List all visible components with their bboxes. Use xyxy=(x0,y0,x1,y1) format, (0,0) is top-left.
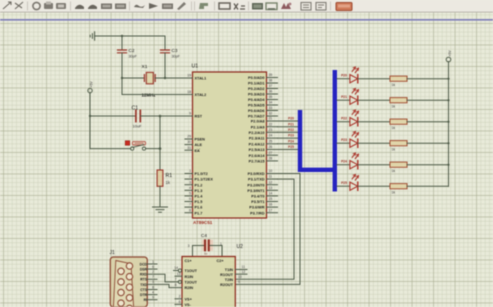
node A xyxy=(121,35,123,37)
wire P3.0 to U2 R2OUT xyxy=(235,174,300,285)
resistor R3 xyxy=(390,98,449,109)
U1 pins P3.0-P3.7 (10-17) xyxy=(247,169,277,215)
svg-text:P2.0/A8: P2.0/A8 xyxy=(251,120,265,124)
svg-text:DSR: DSR xyxy=(140,268,148,272)
U1 pins P2.0-P2.7 (21-28) xyxy=(249,117,278,164)
svg-text:CTS: CTS xyxy=(140,288,148,292)
power +5V terminal xyxy=(88,81,94,93)
node D xyxy=(89,115,91,117)
svg-text:DCD: DCD xyxy=(140,262,148,266)
svg-text:10: 10 xyxy=(238,275,242,279)
svg-text:35: 35 xyxy=(269,95,273,99)
wire xyxy=(146,148,160,150)
svg-text:18: 18 xyxy=(187,90,191,94)
svg-text:31: 31 xyxy=(187,146,191,150)
U1 pin ALE (30) xyxy=(185,140,203,147)
svg-text:P3.4/T0: P3.4/T0 xyxy=(251,195,264,199)
svg-text:9: 9 xyxy=(152,296,154,300)
svg-text:7: 7 xyxy=(175,278,177,282)
J1 pin stubs and numbers xyxy=(147,260,157,300)
LED D2 with net label P21 xyxy=(337,89,390,105)
svg-text:1: 1 xyxy=(152,260,154,264)
svg-text:2: 2 xyxy=(179,294,181,298)
svg-text:P2.2/A10: P2.2/A10 xyxy=(249,131,265,135)
svg-text:P1.4: P1.4 xyxy=(195,195,204,199)
svg-text:P2.3/A11: P2.3/A11 xyxy=(249,137,265,141)
svg-text:XTAL1: XTAL1 xyxy=(195,77,207,81)
wire P2.0 to bus xyxy=(278,117,298,121)
svg-text:1k: 1k xyxy=(392,148,396,152)
svg-text:R1OUT: R1OUT xyxy=(220,273,234,277)
svg-text:C2: C2 xyxy=(129,48,135,53)
wire xyxy=(90,115,136,117)
svg-text:J1: J1 xyxy=(110,250,116,256)
svg-text:13: 13 xyxy=(177,272,181,276)
svg-text:2: 2 xyxy=(189,175,191,179)
svg-text:29: 29 xyxy=(187,135,191,139)
svg-text:P0.0/AD0: P0.0/AD0 xyxy=(248,76,264,80)
svg-text:P24: P24 xyxy=(341,160,347,164)
svg-text:P3.6/WR: P3.6/WR xyxy=(249,206,264,210)
svg-text:34: 34 xyxy=(269,101,273,105)
svg-text:RST: RST xyxy=(195,115,203,119)
U1 pins P1.0-P1.7 (1-8) xyxy=(185,169,213,215)
svg-text:8: 8 xyxy=(175,283,177,287)
svg-text:12: 12 xyxy=(242,270,246,274)
svg-text:P3.2/INT0: P3.2/INT0 xyxy=(247,183,264,187)
svg-text:T2OUT: T2OUT xyxy=(185,281,198,285)
ground xyxy=(153,207,168,212)
svg-text:9: 9 xyxy=(189,112,191,116)
svg-text:P0.3/AD3: P0.3/AD3 xyxy=(248,93,264,97)
LED D4 with net label P23 xyxy=(337,132,390,148)
svg-text:+5V: +5V xyxy=(448,50,452,57)
svg-text:P1.7: P1.7 xyxy=(195,211,203,215)
svg-text:U1: U1 xyxy=(192,64,199,70)
node rail junctions xyxy=(447,78,449,166)
svg-text:P1.6: P1.6 xyxy=(195,206,203,210)
U1 pins P0.0-P0.7 (39-32) xyxy=(248,73,277,119)
wire J1 TXD to U2 R2IN xyxy=(147,284,182,287)
wire xyxy=(89,93,91,149)
svg-text:1k: 1k xyxy=(392,191,396,195)
U2 pin VS- (6) xyxy=(175,300,192,307)
resistor R6 xyxy=(390,162,449,173)
capacitor C3 xyxy=(161,48,181,59)
svg-text:EA: EA xyxy=(195,149,201,153)
svg-text:27: 27 xyxy=(269,151,273,155)
svg-text:R2OUT: R2OUT xyxy=(220,283,234,287)
LED D3 with net label P22 xyxy=(337,110,390,126)
svg-text:1k: 1k xyxy=(392,169,396,173)
node F xyxy=(159,147,162,150)
svg-text:8: 8 xyxy=(152,285,154,289)
svg-text:2: 2 xyxy=(152,270,154,274)
svg-text:C4: C4 xyxy=(201,233,207,238)
svg-text:19: 19 xyxy=(187,74,191,78)
wire xyxy=(90,148,131,150)
svg-text:28: 28 xyxy=(269,157,273,161)
svg-text:P25: P25 xyxy=(341,181,347,185)
svg-text:6: 6 xyxy=(152,265,154,269)
svg-text:T1OUT: T1OUT xyxy=(185,269,198,273)
svg-text:8: 8 xyxy=(189,208,191,212)
svg-text:P3.1/TXD: P3.1/TXD xyxy=(248,178,265,182)
svg-text:XTAL2: XTAL2 xyxy=(195,93,207,97)
node E xyxy=(159,115,162,118)
svg-text:10: 10 xyxy=(269,169,273,173)
wire xyxy=(159,186,161,207)
bus (blue) xyxy=(300,70,335,192)
sheet border (blue) xyxy=(0,19,493,21)
svg-text:P20: P20 xyxy=(341,74,347,78)
svg-text:P0.5/AD5: P0.5/AD5 xyxy=(248,104,264,108)
resistor R5 xyxy=(390,141,449,152)
svg-text:P23: P23 xyxy=(288,134,294,138)
svg-text:R1IN: R1IN xyxy=(185,275,194,279)
svg-text:1u: 1u xyxy=(204,252,208,256)
toolbar xyxy=(0,0,493,13)
wire P3.1 to U2 T2IN xyxy=(235,179,294,279)
svg-text:AT89C51: AT89C51 xyxy=(193,220,213,225)
resistor R1 xyxy=(157,170,172,186)
svg-text:33: 33 xyxy=(269,106,273,110)
svg-text:P1.3: P1.3 xyxy=(195,189,203,193)
node C xyxy=(164,77,166,79)
svg-text:24: 24 xyxy=(269,134,273,138)
wire P2.1 to bus xyxy=(278,122,298,126)
wire P2.5 to bus xyxy=(278,145,298,149)
svg-text:6: 6 xyxy=(179,300,181,304)
svg-text:23: 23 xyxy=(269,128,273,132)
wire VCC rail xyxy=(448,62,450,186)
svg-text:7: 7 xyxy=(189,203,191,207)
svg-text:RXD: RXD xyxy=(140,273,148,277)
node B xyxy=(121,77,123,79)
U2 pin R2OUT (9) xyxy=(220,280,240,287)
svg-text:P0.1/AD1: P0.1/AD1 xyxy=(248,82,264,86)
svg-text:14: 14 xyxy=(269,192,273,196)
svg-text:ALE: ALE xyxy=(195,143,203,147)
svg-text:P2.7/A15: P2.7/A15 xyxy=(249,160,265,164)
svg-text:3: 3 xyxy=(188,244,190,248)
svg-text:T1IN: T1IN xyxy=(225,268,233,272)
capacitor C4 xyxy=(188,233,222,257)
wire xyxy=(122,77,144,79)
svg-text:P23: P23 xyxy=(341,138,347,142)
U1 pin XTAL1 (19) xyxy=(185,74,206,81)
capacitor C2 xyxy=(118,48,138,59)
push button (reset) xyxy=(125,141,145,151)
wire xyxy=(140,115,192,117)
resistor R2 xyxy=(390,76,449,87)
svg-text:P2.1/A9: P2.1/A9 xyxy=(251,125,265,129)
U1 pin XTAL2 (18) xyxy=(185,90,206,97)
svg-text:X1: X1 xyxy=(142,64,148,70)
svg-text:PSEN: PSEN xyxy=(195,138,206,142)
U1 pin EA (31) xyxy=(185,146,200,153)
ground xyxy=(90,32,94,40)
wire xyxy=(164,53,166,78)
svg-text:RI: RI xyxy=(144,298,147,302)
svg-text:P1.2: P1.2 xyxy=(195,183,203,187)
svg-text:30pF: 30pF xyxy=(172,55,181,59)
svg-text:P21: P21 xyxy=(341,95,347,99)
svg-text:C1+: C1+ xyxy=(185,259,193,263)
svg-text:13: 13 xyxy=(269,186,273,190)
svg-text:30: 30 xyxy=(187,140,191,144)
svg-text:3: 3 xyxy=(189,180,191,184)
svg-text:9: 9 xyxy=(238,280,240,284)
svg-text:36: 36 xyxy=(269,90,273,94)
svg-text:P0.6/AD6: P0.6/AD6 xyxy=(248,109,264,113)
svg-text:P3.0/RXD: P3.0/RXD xyxy=(248,172,265,176)
svg-text:TXD: TXD xyxy=(140,283,147,287)
svg-text:P3.5/T1: P3.5/T1 xyxy=(251,200,264,204)
U1 pin PSEN (29) xyxy=(185,135,205,142)
power VCC terminal (top right) xyxy=(446,50,452,62)
U2 pin T2IN (10) xyxy=(225,275,242,282)
svg-text:26: 26 xyxy=(269,145,273,149)
wire xyxy=(121,53,123,78)
wire P2.4 to bus xyxy=(278,139,298,143)
svg-text:P1.1/T2EX: P1.1/T2EX xyxy=(195,178,214,182)
wire xyxy=(122,78,193,95)
wire xyxy=(95,35,165,37)
svg-text:1: 1 xyxy=(220,242,222,246)
connector J1 (DB9) xyxy=(110,250,148,307)
LED D5 with net label P24 xyxy=(337,153,390,169)
svg-text:4: 4 xyxy=(152,290,154,294)
svg-text:R1: R1 xyxy=(166,173,173,179)
svg-text:DTR: DTR xyxy=(140,293,148,297)
capacitor C1 xyxy=(132,106,143,129)
svg-text:5: 5 xyxy=(189,192,191,196)
svg-text:37: 37 xyxy=(269,84,273,88)
svg-text:21: 21 xyxy=(269,117,273,121)
svg-text:U2: U2 xyxy=(237,244,244,250)
svg-text:P20: P20 xyxy=(288,117,294,121)
svg-text:RTS: RTS xyxy=(140,278,148,282)
LED D1 with net label P20 xyxy=(337,67,390,83)
U2 pin R2IN (8) xyxy=(175,283,194,290)
svg-text:P3.7/RD: P3.7/RD xyxy=(250,211,265,215)
svg-text:10uF: 10uF xyxy=(133,123,143,128)
svg-text:25: 25 xyxy=(269,139,273,143)
U2 pin R1IN (13) xyxy=(175,272,193,279)
wire xyxy=(155,77,192,79)
U2 pin R1OUT (12) xyxy=(220,270,247,277)
wire P2.2 to bus xyxy=(278,128,298,132)
svg-text:T2IN: T2IN xyxy=(225,278,233,282)
svg-text:P0.2/AD2: P0.2/AD2 xyxy=(248,87,264,91)
svg-text:1k: 1k xyxy=(392,126,396,130)
svg-text:P2.4/A12: P2.4/A12 xyxy=(249,142,265,146)
svg-text:P1.0/T2: P1.0/T2 xyxy=(195,172,208,176)
svg-text:11: 11 xyxy=(269,175,273,179)
U2 pin VS+ (2) xyxy=(175,294,193,301)
svg-text:38: 38 xyxy=(269,79,273,83)
svg-text:30pF: 30pF xyxy=(129,55,138,59)
T2OUT pin bubble xyxy=(178,280,181,283)
svg-text:4: 4 xyxy=(189,186,191,190)
svg-text:P22: P22 xyxy=(288,128,294,132)
svg-text:1k: 1k xyxy=(392,83,396,87)
svg-text:C1: C1 xyxy=(132,106,139,112)
svg-text:1k: 1k xyxy=(392,105,396,109)
IC U2 MAX232 xyxy=(182,244,243,307)
U2 pin T1IN (11) xyxy=(225,265,247,272)
svg-text:15: 15 xyxy=(269,197,273,201)
svg-text:39: 39 xyxy=(269,73,273,77)
svg-text:C2+: C2+ xyxy=(217,259,225,263)
svg-text:6: 6 xyxy=(189,197,191,201)
crystal X1 xyxy=(142,64,157,97)
resistor R7 xyxy=(390,184,449,195)
U2 pin T2OUT (7) xyxy=(175,278,198,285)
svg-text:P25: P25 xyxy=(288,145,294,149)
svg-text:P0.7/AD7: P0.7/AD7 xyxy=(248,115,264,119)
svg-text:VS+: VS+ xyxy=(185,297,193,301)
svg-text:P2.6/A14: P2.6/A14 xyxy=(249,154,266,158)
svg-text:R2IN: R2IN xyxy=(185,286,194,290)
svg-text:VS-: VS- xyxy=(185,303,192,307)
wire P2.3 to bus xyxy=(278,134,298,138)
svg-text:11: 11 xyxy=(242,265,246,269)
svg-text:P24: P24 xyxy=(288,139,294,143)
svg-text:P21: P21 xyxy=(288,122,294,126)
LED D6 with net label P25 xyxy=(337,175,390,191)
U2 pin T1OUT (14) xyxy=(174,266,198,273)
svg-text:P1.5: P1.5 xyxy=(195,200,203,204)
svg-text:P3.3/INT1: P3.3/INT1 xyxy=(247,189,264,193)
svg-text:C3: C3 xyxy=(172,48,178,53)
IC U1 AT89C51 microcontroller xyxy=(192,64,267,226)
svg-text:7: 7 xyxy=(152,275,154,279)
svg-text:14: 14 xyxy=(174,266,178,270)
svg-text:16: 16 xyxy=(269,203,273,207)
svg-text:22: 22 xyxy=(269,122,273,126)
wire xyxy=(164,36,166,50)
wire xyxy=(159,116,161,170)
svg-text:12: 12 xyxy=(269,180,273,184)
svg-text:1: 1 xyxy=(189,169,191,173)
wire J1 RXD to U2 T2OUT xyxy=(147,274,178,282)
resistor R4 xyxy=(390,119,449,130)
svg-text:17: 17 xyxy=(269,208,273,212)
svg-text:P0.4/AD4: P0.4/AD4 xyxy=(248,98,265,102)
wire xyxy=(121,36,123,50)
svg-text:32: 32 xyxy=(269,112,273,116)
svg-text:3: 3 xyxy=(152,280,154,284)
svg-text:P2.5/A13: P2.5/A13 xyxy=(249,148,265,152)
U1 pin RST (9) xyxy=(185,112,203,119)
svg-text:P22: P22 xyxy=(341,117,347,121)
svg-text:+5V: +5V xyxy=(89,81,93,88)
